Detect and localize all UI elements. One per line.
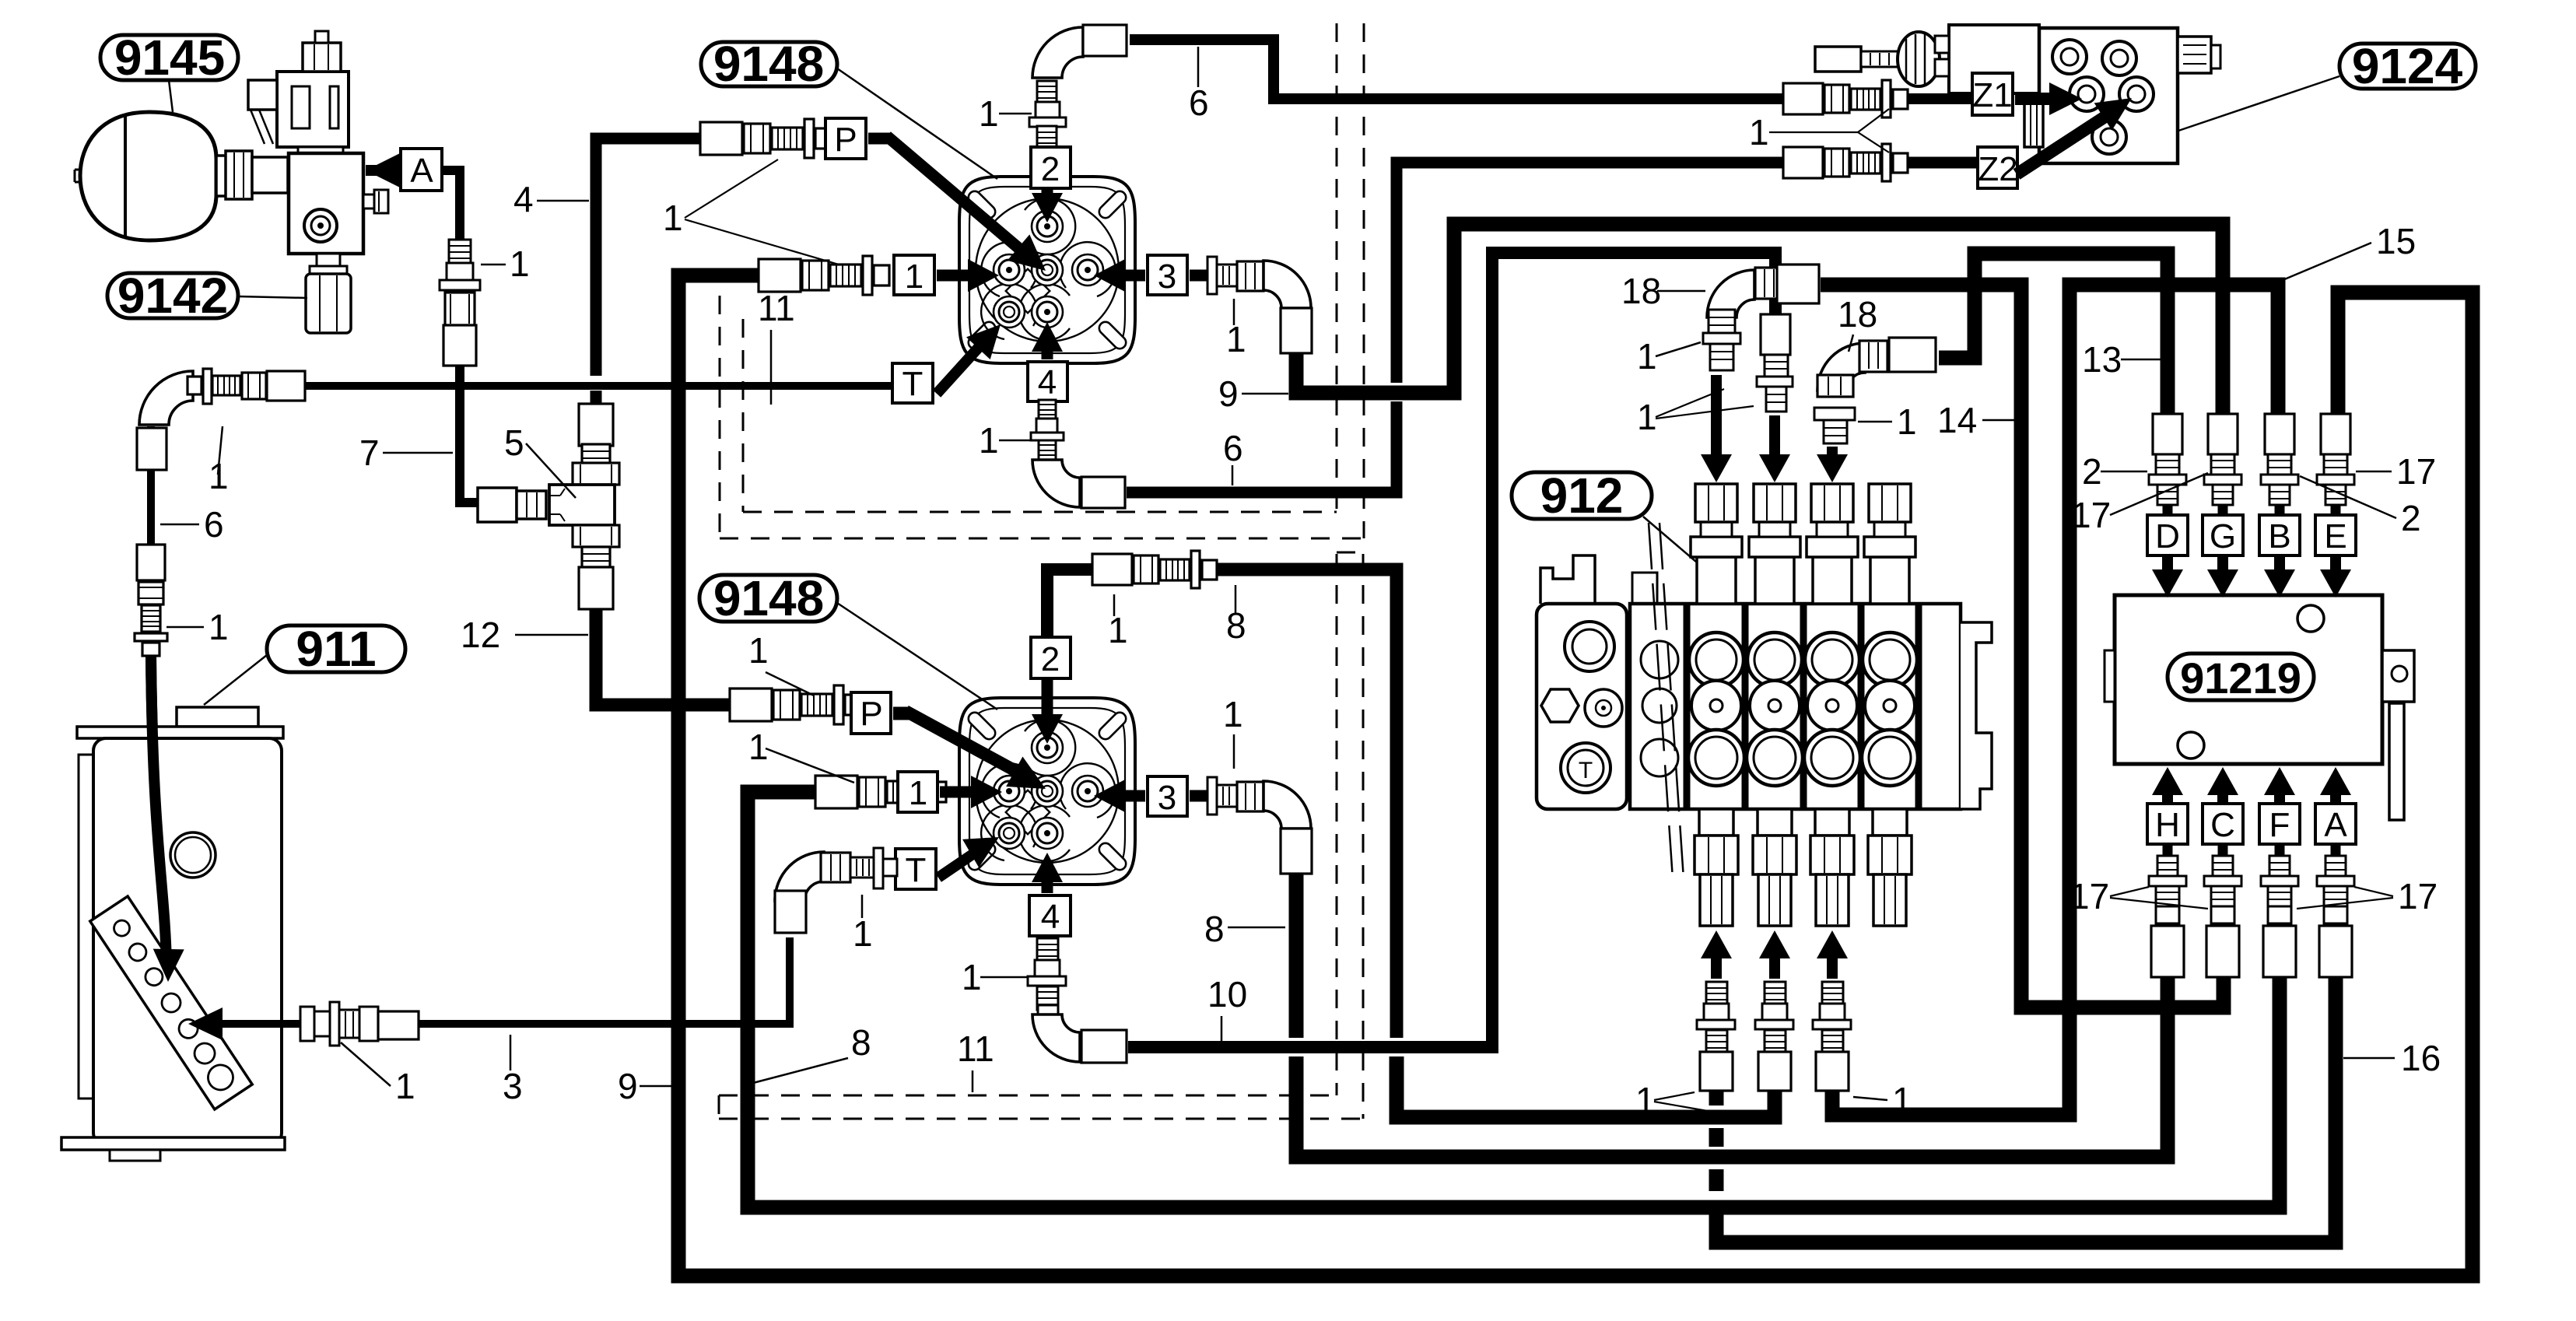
wire hose 12 tee down then right to lower pilot valve port P [596, 599, 730, 705]
port 1 box and arrow (upper valve) [759, 259, 801, 292]
callout 91219 inside block [2168, 653, 2314, 700]
tank strainer bracket [90, 896, 252, 1109]
svg-text:912: 912 [1540, 468, 1624, 524]
svg-text:B: B [2268, 517, 2290, 555]
dashed boundary upper box (cab floor), left edges [719, 296, 721, 538]
valve 9124 knob [2178, 37, 2211, 73]
dashed boundary upper box, right edges [1336, 23, 1338, 512]
valve 912 top port fittings [1697, 557, 1736, 604]
svg-text:10: 10 [1207, 974, 1247, 1014]
svg-text:11: 11 [957, 1028, 994, 1069]
svg-text:1: 1 [1635, 1080, 1656, 1120]
svg-text:17: 17 [2070, 876, 2109, 916]
callout 911 [267, 625, 405, 672]
callout 9148 lower [699, 575, 837, 622]
manifold lever pin [2389, 703, 2404, 820]
svg-text:C: C [2210, 806, 2235, 844]
tank port circle [170, 832, 216, 878]
svg-text:12: 12 [461, 615, 500, 655]
svg-text:16: 16 [2401, 1038, 2441, 1078]
svg-text:1: 1 [510, 244, 530, 284]
arrows into valve 912 top ports [1711, 375, 1722, 464]
svg-text:4: 4 [1038, 363, 1057, 401]
svg-text:1: 1 [1749, 112, 1769, 152]
svg-text:14: 14 [1937, 400, 1977, 440]
wire curved suction hose into tank strainer [151, 653, 168, 972]
wire suction hose inside tank with arrow into strainer [151, 655, 166, 965]
manifold block 91219 [2115, 595, 2382, 764]
break lines through valve 912 section 1 [1649, 523, 1673, 879]
svg-text:P: P [860, 695, 882, 733]
svg-text:1: 1 [1108, 610, 1128, 650]
port P box and arrow (upper valve) [700, 122, 742, 155]
wire return arrow into tank strainer [219, 1020, 308, 1028]
solenoid valve on top of 9142 [277, 72, 349, 147]
callout 9124 [2339, 44, 2476, 89]
svg-text:17: 17 [2071, 495, 2111, 535]
elbow 18 at valve 912 section1 [1707, 270, 1754, 317]
node A box with arrow into 9142 [366, 153, 400, 187]
accumulator 9145 body [80, 112, 216, 240]
svg-text:9: 9 [1218, 373, 1239, 414]
valve 9124 attachment block [1949, 25, 2039, 93]
svg-text:6: 6 [204, 504, 224, 545]
svg-text:17: 17 [2398, 876, 2438, 916]
Z2 fitting and box [1783, 147, 1823, 178]
svg-text:1: 1 [1897, 401, 1917, 442]
wire hose 9 from upper pilot valve port 3 down then right and up to manifold port G [1296, 224, 2223, 414]
svg-text:2: 2 [2082, 451, 2102, 492]
fittings above manifold (2/17) for D G B E [2153, 414, 2182, 454]
dashed boundary lower box, right edges [1336, 554, 1338, 1095]
svg-text:3: 3 [1158, 779, 1176, 817]
boxes H C F A with arrows into manifold [2152, 767, 2183, 795]
valve 912 left end block [1537, 604, 1627, 809]
wire hose from valve 912 section 3 bottom right and up to manifold port B [1832, 285, 2278, 1115]
svg-text:8: 8 [851, 1022, 871, 1063]
valve 912 bottom port fittings [1699, 809, 1733, 836]
joystick handle [1815, 47, 1861, 72]
svg-text:9145: 9145 [114, 30, 225, 86]
port 2 fitting chain (lower valve) [1047, 569, 1092, 641]
port 3 box and fitting (upper valve) [1148, 255, 1187, 295]
svg-text:9142: 9142 [117, 268, 228, 324]
svg-text:11: 11 [758, 288, 795, 328]
callout 9145 [100, 35, 238, 80]
svg-text:1: 1 [905, 258, 924, 296]
svg-text:1: 1 [979, 420, 999, 461]
port 4 box and fitting chain (upper valve) [1028, 362, 1067, 401]
svg-text:2: 2 [1041, 150, 1060, 188]
wire hose from upper pilot valve port 4 to Z2 (vertical with crossover breaks) [1127, 401, 1397, 492]
wire hose 7 from valve 9142 port A down to tee [442, 170, 460, 247]
valve 9124 side hex [2024, 99, 2043, 147]
boxes D G B E with arrows into manifold [2163, 505, 2173, 515]
dashed boundary upper box, bottom edges [743, 511, 1337, 513]
label 1 leaders at valve 912 bottom unions [1706, 982, 1727, 1004]
fitting 1 below A line [449, 240, 471, 263]
svg-text:1: 1 [748, 630, 769, 671]
svg-text:2: 2 [2401, 498, 2421, 538]
wire hose 8 from lower pilot valve port 2 right and down to valve 912 section 2 bottom [1207, 569, 1397, 1038]
valve 9124 body [2039, 28, 2178, 163]
svg-text:7: 7 [359, 433, 380, 473]
port 4 box and fitting chain (lower valve) [1029, 895, 1071, 936]
svg-text:1: 1 [1637, 336, 1657, 377]
svg-text:911: 911 [296, 621, 376, 677]
valve 912 mounting bracket left [1540, 555, 1595, 604]
tank 911 body [79, 755, 94, 1098]
pilot valve unit 9148 (lower) [959, 698, 1135, 885]
svg-text:T: T [902, 365, 924, 403]
svg-text:P: P [834, 121, 857, 159]
wire hose 4 from tee to upper pilot valve port P [596, 138, 700, 376]
port P box and arrow (lower valve) [730, 689, 772, 721]
svg-text:6: 6 [1223, 428, 1243, 468]
dashed boundary lower box, bottom edges [719, 1095, 1337, 1097]
fitting 1 at tank return port [300, 1007, 314, 1041]
svg-text:1: 1 [1223, 694, 1243, 734]
callout 9148 upper [701, 42, 837, 86]
svg-text:G: G [2210, 517, 2236, 555]
svg-text:18: 18 [1621, 271, 1661, 311]
svg-text:1: 1 [663, 198, 683, 238]
manifold left tab [2105, 650, 2115, 702]
svg-text:9148: 9148 [713, 36, 824, 92]
valve block 9142 [289, 153, 363, 254]
svg-text:E: E [2324, 517, 2346, 555]
svg-text:H: H [2155, 806, 2180, 844]
svg-text:1: 1 [853, 913, 873, 954]
svg-text:4: 4 [513, 179, 534, 219]
svg-text:9: 9 [618, 1066, 638, 1106]
svg-text:T: T [906, 851, 927, 889]
elbow fitting at tank return hose upper [139, 371, 193, 425]
svg-text:T: T [1579, 758, 1593, 783]
svg-text:A: A [2324, 806, 2347, 844]
wire return hose from tank to upper pilot valve port T [191, 382, 896, 390]
wire hose 6 from upper pilot valve port 2 to Z1 [1130, 40, 1786, 99]
valve 912 inlet section circles [1641, 641, 1678, 678]
arrows into valve 912 bottom ports [1701, 930, 1732, 958]
svg-text:Z1: Z1 [1972, 76, 2012, 114]
pilot valve unit 9148 (upper) [959, 177, 1135, 363]
Z1 fitting and box [1783, 83, 1823, 114]
svg-text:1: 1 [209, 607, 229, 647]
svg-text:18: 18 [1838, 294, 1877, 335]
svg-text:3: 3 [503, 1066, 523, 1106]
fitting below valve block 9142 [317, 254, 340, 266]
port T box and fitting (lower valve) [895, 849, 936, 889]
wire hose 13 from valve 912 section 3 elbow up and right to manifold port D [1939, 254, 2168, 414]
fitting chain into valve 912 section 2 top [1761, 314, 1790, 355]
svg-text:9124: 9124 [2352, 38, 2463, 94]
valve 9124 port circles [2052, 40, 2087, 74]
svg-text:1: 1 [1226, 319, 1246, 359]
accumulator neck fittings [216, 156, 227, 196]
wire hose 9 from upper pilot valve port 1 fitting down and right to hose 16 riser (port E circuit) [678, 275, 2473, 1276]
svg-text:91219: 91219 [2180, 653, 2301, 703]
wire hose 6 tank line below elbow [147, 426, 155, 545]
svg-text:2: 2 [1041, 640, 1060, 678]
tee fitting 5 [478, 488, 517, 522]
svg-text:3: 3 [1158, 258, 1176, 296]
svg-text:1: 1 [395, 1066, 415, 1106]
svg-text:5: 5 [504, 422, 524, 463]
valve 912 section spool circles [1689, 632, 1744, 687]
port 2 fitting chain (upper valve) [1032, 27, 1083, 78]
fitting on right side of valve block [363, 194, 374, 208]
valve 912 main body sections [1632, 573, 1657, 604]
fittings below manifold (17) for H C F A [2157, 856, 2178, 876]
wire hose 8 from lower pilot valve port 1 down and right to manifold port F [748, 792, 2280, 1207]
port 1 box and arrow (lower valve) [815, 776, 857, 808]
elbow 18 at valve 912 section3 [1817, 343, 1865, 391]
wire hose 10 from lower pilot valve port 4 right and up to valve 912 section 2 top [1128, 253, 1775, 1047]
svg-text:D: D [2155, 517, 2180, 555]
svg-text:1: 1 [748, 727, 769, 767]
svg-text:F: F [2269, 806, 2290, 844]
svg-text:6: 6 [1189, 82, 1209, 123]
svg-text:9148: 9148 [713, 570, 824, 626]
wire hose 3 tank return from lower pilot valve port T [412, 937, 790, 1024]
svg-text:1: 1 [909, 774, 927, 812]
svg-text:8: 8 [1204, 909, 1225, 949]
svg-text:1: 1 [1892, 1080, 1912, 1120]
svg-text:A: A [410, 152, 433, 190]
manifold right tab with hole [2382, 650, 2414, 702]
svg-text:17: 17 [2396, 451, 2436, 492]
svg-text:Z2: Z2 [1978, 150, 2017, 188]
svg-text:4: 4 [1041, 898, 1060, 936]
svg-text:15: 15 [2376, 221, 2416, 261]
valve 912 right bracket [1961, 622, 1992, 809]
svg-text:13: 13 [2082, 339, 2122, 380]
callout 9142 [107, 273, 238, 318]
svg-text:1: 1 [962, 957, 982, 997]
svg-text:1: 1 [979, 93, 999, 134]
wire hose 14 from valve 912 section 1 elbow to manifold port C [1821, 285, 2224, 1007]
callout 912 [1512, 472, 1652, 519]
port 3 box and fitting (lower valve) [1148, 776, 1187, 816]
wire hose 16 from valve 912 section 1 bottom to manifold port A (dashed crossover) [1709, 1088, 1724, 1106]
svg-text:1: 1 [1637, 397, 1657, 437]
wire hose 8 from lower pilot valve port 3 down to manifold port H [1289, 870, 1304, 1038]
port T box and arrow (upper valve) [892, 363, 933, 403]
